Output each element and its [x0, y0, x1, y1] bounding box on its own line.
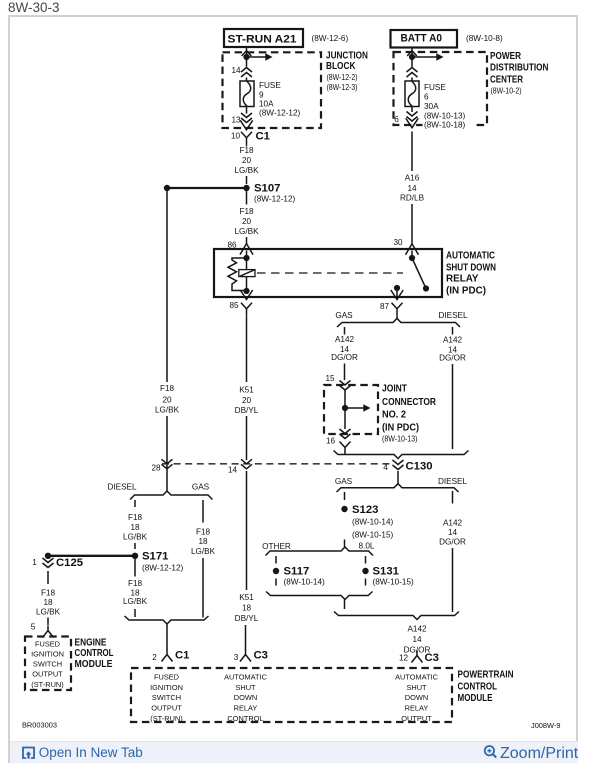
merge bracket S117/S131	[266, 592, 373, 600]
svg-text:RELAY: RELAY	[234, 704, 258, 713]
border crossing relay pin 30	[406, 244, 419, 255]
svg-text:1: 1	[32, 558, 37, 567]
svg-text:MODULE: MODULE	[458, 693, 493, 704]
wire DIESEL branch down to merge	[452, 364, 454, 449]
svg-text:CONNECTOR: CONNECTOR	[382, 397, 437, 408]
border crossing at junction block bottom	[240, 120, 252, 130]
connector chevrons pin 14	[241, 68, 252, 78]
svg-text:F18: F18	[160, 384, 175, 393]
svg-text:8.0L: 8.0L	[359, 542, 375, 551]
svg-text:LG/BK: LG/BK	[191, 547, 216, 556]
wire 8.0L branch	[365, 556, 367, 564]
merge bracket left section	[125, 616, 209, 624]
border crossing at junction block top	[242, 51, 252, 56]
svg-text:DOWN: DOWN	[234, 693, 257, 702]
svg-text:ST-RUN A21: ST-RUN A21	[228, 34, 297, 46]
svg-text:IGNITION: IGNITION	[150, 683, 183, 692]
svg-text:LG/BK: LG/BK	[123, 533, 148, 542]
wire GAS branch (left)	[202, 500, 204, 523]
wire label K51 20 DB/YL	[235, 386, 259, 416]
connector box BATT A0	[391, 30, 458, 48]
svg-text:S131: S131	[373, 566, 399, 578]
svg-text:6: 6	[424, 93, 429, 102]
wire to pin 5	[47, 618, 49, 626]
connector C130 dashed line	[162, 463, 391, 465]
arrow feed to other circuits (PDC)	[412, 53, 444, 60]
joint connector node	[342, 405, 348, 411]
PCM pin 3 function text	[224, 673, 268, 723]
svg-text:C1: C1	[175, 650, 189, 662]
svg-text:(ST-RUN): (ST-RUN)	[150, 714, 182, 723]
svg-text:18: 18	[43, 598, 53, 607]
svg-text:DISTRIBUTION: DISTRIBUTION	[490, 63, 549, 74]
relay coil branch wire	[246, 258, 248, 291]
svg-text:F18: F18	[239, 207, 254, 216]
node splice in junction block	[243, 54, 249, 60]
svg-text:A142: A142	[443, 519, 463, 528]
relay pin 87 node	[394, 285, 400, 291]
svg-text:(8W-10-14): (8W-10-14)	[352, 518, 394, 527]
svg-text:C130: C130	[406, 461, 433, 473]
PCM pin 2 function text	[150, 673, 183, 723]
connector chevrons pin 15	[340, 381, 351, 391]
engine control module enclosure (dashed)	[25, 637, 71, 691]
wire label F18 20 LG/BK (upper)	[234, 146, 259, 175]
svg-text:10: 10	[231, 132, 241, 141]
svg-text:GAS: GAS	[192, 483, 210, 492]
svg-text:(8W-10-15): (8W-10-15)	[373, 578, 415, 587]
svg-text:30: 30	[393, 238, 403, 247]
wire S131 to merge	[365, 579, 367, 586]
wire S107 left branch down	[166, 191, 168, 382]
svg-text:C1: C1	[256, 131, 270, 143]
wire label F18 18 LG/BK (C125)	[36, 589, 61, 617]
wire S117 to merge	[275, 579, 277, 586]
wire label F18 18 LG/BK (left DIESEL)	[123, 513, 148, 542]
relay pin 87 stub wire	[396, 288, 398, 297]
engine control module pin function text	[31, 640, 64, 689]
svg-text:DOWN: DOWN	[405, 693, 428, 702]
svg-text:DB/YL: DB/YL	[235, 406, 259, 415]
svg-text:(8W-12-6): (8W-12-6)	[312, 34, 349, 43]
splice S117	[273, 566, 325, 587]
wire segment to relay pin 86	[246, 237, 248, 244]
svg-text:18: 18	[198, 537, 208, 546]
connector chevrons pin 1 C125	[43, 558, 54, 568]
svg-text:30A: 30A	[424, 102, 439, 111]
svg-text:(8W-10-14): (8W-10-14)	[284, 578, 326, 587]
svg-text:FUSED: FUSED	[154, 673, 179, 682]
wire A16 14 RD/LB from PDC to relay pin 30	[411, 132, 413, 172]
wire GAS to S123	[344, 492, 346, 500]
wire K51 to C130	[246, 416, 248, 460]
svg-text:GAS: GAS	[335, 477, 353, 486]
svg-text:F18: F18	[128, 513, 143, 522]
svg-text:C3: C3	[254, 650, 268, 662]
svg-text:(8W-12-3): (8W-12-3)	[327, 83, 358, 92]
wire label F18 18 LG/BK (left GAS)	[191, 528, 216, 557]
svg-text:S117: S117	[284, 566, 310, 578]
svg-text:(8W-10-13): (8W-10-13)	[382, 434, 418, 443]
svg-text:3: 3	[234, 653, 239, 662]
fuse 9 value labels	[259, 81, 301, 118]
svg-text:12: 12	[399, 654, 409, 663]
page title 8W-30-3	[8, 0, 60, 15]
svg-text:14: 14	[412, 635, 422, 644]
svg-text:9: 9	[259, 91, 264, 100]
split bracket below pin 28	[130, 491, 213, 500]
border crossing at PDC bottom	[406, 118, 418, 128]
relay coil node bottom	[243, 288, 249, 294]
svg-text:A16: A16	[405, 174, 420, 183]
svg-text:F18: F18	[239, 146, 254, 155]
connector pin 5 (lambda symbol)	[43, 626, 54, 638]
svg-text:14: 14	[228, 466, 238, 475]
svg-text:AUTOMATIC: AUTOMATIC	[224, 673, 268, 682]
connector chevrons pin 28	[162, 459, 173, 469]
wire to pin 3 C3	[245, 625, 247, 650]
svg-text:FUSE: FUSE	[424, 83, 446, 92]
svg-text:OUTPUT: OUTPUT	[32, 670, 63, 679]
wire label F18 20 LG/BK (left branch)	[155, 384, 180, 415]
svg-text:6: 6	[394, 115, 399, 124]
wire label A142 14 DG/OR (GAS)	[331, 335, 358, 362]
relay coil node top	[243, 255, 249, 261]
connector chevrons pin 16	[340, 429, 351, 439]
connector chevrons pin 6	[407, 112, 418, 122]
svg-text:RD/LB: RD/LB	[400, 194, 425, 203]
svg-text:C125: C125	[56, 557, 83, 569]
connector below pin 16 (Y symbol)	[340, 442, 351, 455]
svg-text:LG/BK: LG/BK	[234, 227, 259, 236]
svg-text:DIESEL: DIESEL	[438, 477, 468, 486]
svg-text:OUTPUT: OUTPUT	[151, 704, 182, 713]
svg-text:DG/OR: DG/OR	[331, 353, 358, 362]
relay actuation dashed link	[257, 272, 403, 274]
relay switch common node (pin 30)	[409, 255, 415, 261]
relay switch arm	[412, 258, 426, 289]
connector chevrons pin 14 (C130)	[241, 459, 252, 469]
wire F18 20 LG/BK from C1 to S107	[246, 145, 248, 184]
wire inside joint connector	[344, 390, 346, 429]
svg-text:A142: A142	[335, 335, 355, 344]
wire fuse 9 to pin 13	[246, 107, 248, 114]
splice S123	[341, 504, 393, 540]
svg-text:BLOCK: BLOCK	[326, 61, 356, 72]
svg-text:28: 28	[151, 464, 161, 473]
wire into relay pin 30	[411, 251, 413, 259]
splice S131	[362, 566, 414, 587]
wire S171 down	[134, 559, 136, 577]
border crossing at PDC top	[407, 51, 417, 56]
power distribution center enclosure (dashed)	[394, 52, 488, 125]
svg-text:20: 20	[242, 156, 252, 165]
svg-text:FUSED: FUSED	[35, 640, 60, 649]
wire into relay pin 86	[246, 251, 248, 259]
splice S107	[164, 183, 296, 204]
junction block enclosure (dashed)	[223, 52, 322, 128]
wire GAS branch down	[202, 558, 204, 618]
wire C125 down	[47, 571, 49, 584]
merge bracket GAS/DIESEL to pin 12	[334, 612, 459, 620]
connector pin 3 C3 (lambda symbol)	[240, 650, 251, 662]
wire from ST-RUN A21 into junction block	[246, 47, 248, 67]
wire S123 to OTHER/8.0L split	[344, 540, 346, 548]
svg-text:RELAY: RELAY	[446, 274, 479, 285]
wire K51 20 DB/YL from pin 85	[246, 316, 248, 382]
wire segment to relay pin 30	[411, 204, 413, 244]
svg-text:(IN PDC): (IN PDC)	[446, 285, 486, 296]
svg-text:CONTROL: CONTROL	[75, 648, 114, 659]
svg-text:K51: K51	[239, 593, 254, 602]
svg-text:(8W-12-12): (8W-12-12)	[142, 564, 184, 573]
connector pin 2 C1 (lambda symbol)	[162, 650, 173, 662]
wire chevron to fuse 6	[411, 78, 413, 82]
svg-text:(8W-12-12): (8W-12-12)	[254, 195, 296, 204]
svg-text:CONTROL: CONTROL	[227, 714, 263, 723]
svg-text:NO. 2: NO. 2	[382, 409, 406, 420]
svg-text:SHUT: SHUT	[235, 683, 256, 692]
wire label F18 20 LG/BK (below S107)	[234, 207, 259, 236]
svg-text:BATT A0: BATT A0	[401, 33, 443, 45]
wire fuse 6 to pin 6	[411, 107, 413, 113]
connector chevrons pin 13	[241, 113, 252, 123]
svg-text:14: 14	[407, 184, 417, 193]
svg-text:POWERTRAIN: POWERTRAIN	[458, 670, 514, 681]
svg-text:10A: 10A	[259, 100, 274, 109]
svg-text:AUTOMATIC: AUTOMATIC	[395, 673, 439, 682]
wire DIESEL branch (left)	[134, 500, 136, 507]
wire merged to pin 2 C1	[166, 624, 168, 650]
border crossing relay pin 87	[391, 290, 403, 300]
fuse 6 (PDC)	[405, 81, 419, 107]
svg-text:SWITCH: SWITCH	[152, 693, 181, 702]
svg-text:S171: S171	[142, 551, 168, 563]
PCM pin 12 function text	[395, 673, 439, 723]
svg-text:(8W-10-18): (8W-10-18)	[424, 121, 466, 130]
svg-text:(8W-10-2): (8W-10-2)	[491, 87, 522, 96]
wire label A142 14 DG/OR (DIESEL right)	[439, 519, 466, 547]
zoom/print link	[483, 744, 578, 763]
svg-text:87: 87	[380, 302, 390, 311]
svg-text:(ST-RUN): (ST-RUN)	[31, 680, 63, 689]
wire from BATT A0 into PDC	[411, 48, 413, 67]
svg-text:(8W-10-13): (8W-10-13)	[424, 112, 466, 121]
svg-text:J008W-9: J008W-9	[531, 721, 560, 730]
wire chevron to fuse 9	[246, 78, 248, 82]
relay switch arm end node	[423, 285, 429, 291]
svg-text:FUSE: FUSE	[259, 81, 281, 90]
svg-text:LG/BK: LG/BK	[123, 597, 148, 606]
node splice in PDC	[409, 54, 415, 60]
wire pin 87 to GAS/DIESEL split	[396, 316, 398, 319]
svg-text:A142: A142	[407, 625, 427, 634]
wire S107 down (middle)	[246, 191, 248, 205]
svg-text:16: 16	[326, 437, 336, 446]
svg-text:OTHER: OTHER	[262, 542, 291, 551]
border crossing relay pin 85	[240, 290, 252, 300]
svg-text:AUTOMATIC: AUTOMATIC	[446, 250, 495, 261]
svg-text:(8W-10-15): (8W-10-15)	[352, 531, 394, 540]
svg-text:LG/BK: LG/BK	[155, 406, 180, 415]
svg-text:18: 18	[130, 523, 140, 532]
split bracket OTHER/8.0L	[266, 547, 374, 556]
svg-text:K51: K51	[239, 386, 254, 395]
svg-text:MODULE: MODULE	[75, 659, 113, 670]
power distribution center title	[490, 51, 549, 96]
connector pin 12 C3 (lambda symbol)	[412, 651, 423, 663]
wire merged GAS down	[344, 600, 346, 610]
svg-text:85: 85	[229, 301, 239, 310]
connector below pin 85 (Y symbol)	[241, 303, 252, 316]
svg-text:LG/BK: LG/BK	[36, 608, 61, 617]
connector chevrons PDC fuse top	[407, 68, 418, 78]
svg-text:F18: F18	[41, 589, 56, 598]
svg-text:C3: C3	[425, 652, 439, 664]
svg-text:POWER: POWER	[490, 51, 522, 62]
svg-text:13: 13	[231, 116, 241, 125]
split bracket below C130	[337, 484, 459, 492]
connector C1 (Y symbol)	[241, 132, 252, 145]
svg-text:SHUT DOWN: SHUT DOWN	[446, 263, 496, 274]
svg-text:CENTER: CENTER	[490, 74, 524, 85]
svg-text:18: 18	[242, 604, 252, 613]
svg-text:F18: F18	[128, 579, 143, 588]
fuse 6 value labels	[424, 83, 466, 121]
wire to left merge bracket	[134, 609, 136, 617]
joint connector arrow feed	[345, 404, 371, 411]
connector chevrons pin 4 (C130)	[393, 460, 404, 470]
svg-text:20: 20	[242, 217, 252, 226]
svg-text:SHUT: SHUT	[406, 683, 427, 692]
svg-text:5: 5	[31, 623, 36, 632]
relay title	[446, 250, 496, 296]
svg-text:DG/OR: DG/OR	[439, 538, 466, 547]
svg-text:4: 4	[383, 463, 388, 472]
footer bar	[10, 741, 578, 763]
svg-text:BR003003: BR003003	[22, 721, 57, 730]
junction block title	[326, 51, 368, 93]
wire DIESEL A142 labels (right)	[452, 491, 454, 504]
wire to S171	[134, 543, 136, 549]
wire OTHER branch	[275, 556, 277, 564]
svg-text:S107: S107	[254, 183, 280, 195]
svg-text:DIESEL: DIESEL	[107, 483, 137, 492]
svg-text:LG/BK: LG/BK	[234, 166, 259, 175]
svg-text:(IN PDC): (IN PDC)	[382, 422, 419, 433]
svg-text:F18: F18	[196, 528, 211, 537]
relay coil resistor zigzag	[228, 258, 247, 291]
wire label A142 14 DG/OR (to pin 12)	[404, 625, 431, 655]
relay U1 automatic shut down relay box	[214, 249, 442, 297]
svg-text:SWITCH: SWITCH	[33, 660, 62, 669]
svg-text:JOINT: JOINT	[382, 384, 407, 395]
svg-text:CONTROL: CONTROL	[458, 682, 498, 693]
border crossing relay pin 86	[240, 244, 253, 255]
wire label F18 18 LG/BK (below S171)	[123, 579, 148, 606]
svg-text:20: 20	[162, 396, 172, 405]
svg-text:RELAY: RELAY	[405, 704, 429, 713]
wire label K51 18 DB/YL	[235, 593, 259, 623]
splice S171	[45, 551, 184, 573]
svg-text:(8W-10-8): (8W-10-8)	[466, 34, 503, 43]
wire K51 18 DB/YL below C130	[246, 471, 248, 590]
svg-text:DG/OR: DG/OR	[439, 354, 466, 363]
arrow feed to other circuits (JB)	[247, 53, 273, 60]
svg-text:S123: S123	[352, 504, 378, 516]
svg-text:A142: A142	[443, 336, 463, 345]
joint connector no.2 enclosure (dashed)	[324, 385, 378, 434]
engine control module title	[75, 637, 114, 670]
connector box ST-RUN A21	[224, 29, 303, 47]
joint connector no.2 title	[382, 384, 437, 444]
svg-text:DIESEL: DIESEL	[438, 311, 468, 320]
wire DIESEL down to merge	[452, 548, 454, 612]
fuse 9 (junction block)	[240, 81, 254, 107]
powertrain control module title	[458, 670, 514, 705]
svg-text:DB/YL: DB/YL	[235, 614, 259, 623]
wire DIESEL branch (A142)	[452, 327, 454, 335]
open in new tab link	[22, 745, 143, 760]
svg-text:IGNITION: IGNITION	[31, 650, 64, 659]
wire C130 down to split	[397, 471, 399, 484]
svg-text:OUTPUT: OUTPUT	[401, 714, 432, 723]
merge bracket above C130	[334, 451, 469, 459]
wire label A142 14 DG/OR (DIESEL)	[439, 336, 466, 363]
svg-text:20: 20	[242, 396, 252, 405]
label mask for (8W-10-18) over dashed border	[423, 120, 473, 130]
svg-text:(8W-12-2): (8W-12-2)	[327, 73, 358, 82]
wire left branch to C130	[166, 416, 168, 491]
wire GAS branch (A142)	[344, 327, 346, 335]
svg-text:(8W-12-12): (8W-12-12)	[259, 109, 301, 118]
powertrain control module enclosure (dashed)	[131, 668, 452, 722]
svg-text:15: 15	[325, 374, 335, 383]
relay coil element	[239, 270, 255, 277]
split bracket below pin 87	[337, 318, 460, 327]
wire label A16 14 RD/LB	[400, 174, 425, 203]
svg-text:2: 2	[152, 653, 157, 662]
svg-text:GAS: GAS	[335, 311, 353, 320]
svg-text:ENGINE: ENGINE	[75, 637, 107, 648]
wire GAS branch to joint connector	[344, 364, 346, 381]
svg-text:14: 14	[231, 66, 241, 75]
svg-text:14: 14	[448, 528, 458, 537]
connector below pin 87 (Y symbol)	[392, 303, 403, 316]
